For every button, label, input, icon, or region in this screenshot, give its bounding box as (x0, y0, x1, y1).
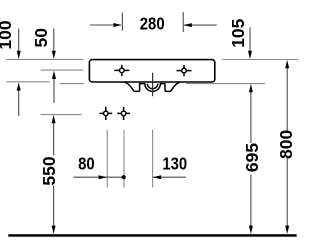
svg-text:550: 550 (39, 156, 59, 185)
50mm reference line (41, 69, 84, 71)
dimension 550 line upper (53, 121, 55, 156)
dimension 280 left arrow line (90, 24, 121, 26)
dimension 80 arrow line (73, 176, 123, 178)
svg-text:100: 100 (0, 20, 15, 49)
550mm reference line (41, 114, 82, 116)
tap hole cross right (177, 65, 192, 76)
dimension 50 upper arrow (53, 29, 55, 52)
svg-text:130: 130 (162, 155, 187, 174)
dimension 695 line upper (250, 90, 252, 143)
dimension 280 right arrow line (184, 24, 217, 26)
dimension 550 line lower (53, 186, 55, 228)
svg-text:280: 280 (140, 15, 165, 34)
rim reference line left (6, 58, 83, 60)
basin underside reference line left (60, 83, 85, 85)
washbasin outline (89, 60, 214, 82)
basin underside reference line right (186, 83, 265, 85)
dimension 100 lower arrow (18, 90, 20, 116)
dimension 105 arrow (249, 27, 251, 51)
dimension 100 upper arrow (18, 29, 20, 52)
supply connection cross left (99, 107, 112, 120)
dimension 130 arrow line (153, 176, 186, 178)
svg-text:80: 80 (78, 154, 95, 173)
centerline through drain (152, 73, 154, 96)
dimension 800 line lower (286, 157, 288, 227)
svg-text:695: 695 (242, 143, 262, 172)
svg-text:50: 50 (31, 28, 51, 48)
floor line (8, 234, 296, 237)
svg-text:800: 800 (276, 130, 296, 159)
svg-text:105: 105 (228, 18, 248, 47)
washbasin underside profile (125, 82, 180, 91)
supply connection cross right (117, 107, 130, 120)
siphon dome inner arc (147, 84, 157, 89)
tap hole cross left (114, 65, 129, 76)
dimension 695 line lower (250, 175, 252, 228)
dimension 800 line upper (286, 66, 288, 131)
center extension line (152, 130, 154, 188)
rim reference line right (222, 59, 298, 61)
dimension 50 lower arrow (53, 78, 55, 103)
100mm reference line (6, 81, 50, 83)
supply extension line left (106, 130, 108, 188)
dimension 80 dot (122, 175, 126, 179)
dimension 280 tick left (121, 13, 123, 31)
supply extension line right (123, 130, 125, 188)
dimension 280 tick right (182, 12, 184, 32)
